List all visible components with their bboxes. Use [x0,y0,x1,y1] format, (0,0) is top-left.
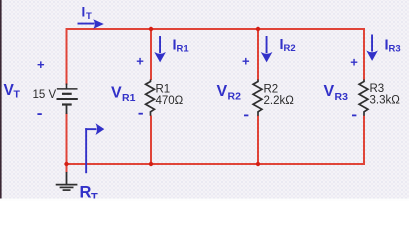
polarity - R1 [139,113,143,115]
svg-text:R1: R1 [156,84,171,96]
wire: battery negative lead down to bottom rail and ground stub [66,113,68,173]
wire: R2 bottom branch [257,116,259,165]
junction: bottom rail / R2 branch [256,162,260,166]
bottom white strip (decorative) [0,199,409,202]
svg-text:V: V [217,83,228,100]
svg-text:+: + [350,55,358,70]
svg-text:2.2kΩ: 2.2kΩ [264,95,295,107]
left page border (decorative) [0,0,2,199]
svg-text:R2: R2 [228,91,242,103]
wire: R3 top branch [363,28,365,80]
svg-text:I: I [82,4,86,19]
junction: bottom rail / battery lead [64,162,68,166]
resistor R1 zigzag [146,80,155,116]
resistor R3 zigzag [359,80,368,116]
junction: top rail / R2 branch [256,27,260,31]
wire: battery positive lead up to top rail [66,29,68,85]
svg-text:470Ω: 470Ω [156,95,184,107]
svg-text:+: + [242,54,250,69]
svg-text:+: + [136,54,144,69]
polarity - R2 [244,115,248,117]
wire: top rail node A [66,28,366,30]
junction: bottom rail / R1 branch [149,162,153,166]
svg-text:R2: R2 [284,43,296,54]
svg-text:T: T [86,11,92,22]
svg-text:R3: R3 [389,44,401,55]
current arrow IT [78,19,104,29]
polarity - R3 [352,115,356,117]
current arrow IR3 [366,35,378,61]
svg-text:R3: R3 [370,83,385,95]
battery V1 (15 V source) [57,84,78,115]
svg-text:V: V [111,85,122,102]
wire: R2 top branch [257,28,259,80]
svg-text:R1: R1 [177,44,190,55]
wire: bottom rail node B [67,163,365,165]
junction: top rail / R1 branch [149,27,153,31]
svg-text:T: T [14,89,21,101]
svg-text:R2: R2 [264,84,279,96]
svg-text:V: V [324,83,335,100]
current arrow IR1 [154,36,166,62]
wire: R1 bottom branch [150,116,152,165]
wire: R1 top branch [150,28,152,80]
svg-text:R: R [80,184,92,202]
total resistance arrow RT (bent) [85,123,104,173]
polarity - battery [37,113,41,115]
svg-text:15 V: 15 V [33,89,57,101]
current arrow IR2 [261,36,273,62]
ground [56,172,78,190]
svg-text:3.3kΩ: 3.3kΩ [370,94,401,106]
svg-text:+: + [37,57,45,72]
svg-text:R1: R1 [122,92,136,104]
wire: R3 bottom branch [363,116,365,166]
resistor R2 zigzag [253,80,262,116]
svg-text:R3: R3 [335,91,349,103]
